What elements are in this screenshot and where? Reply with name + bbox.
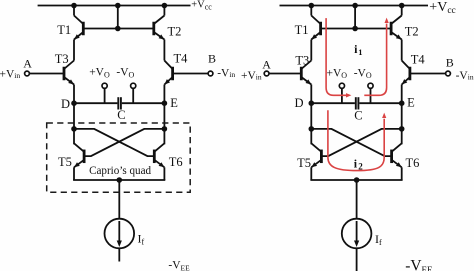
svg-text:T6: T6 <box>406 156 420 170</box>
svg-text:T1: T1 <box>295 23 309 37</box>
svg-text:T1: T1 <box>57 23 71 37</box>
svg-text:B: B <box>208 52 216 66</box>
svg-text:T5: T5 <box>58 155 72 169</box>
svg-text:T4: T4 <box>174 52 189 66</box>
svg-text:T2: T2 <box>168 25 182 39</box>
svg-text:T3: T3 <box>55 52 69 66</box>
svg-text:D: D <box>295 96 304 110</box>
svg-text:T6: T6 <box>169 155 183 169</box>
svg-text:C: C <box>117 108 125 122</box>
svg-text:B: B <box>446 56 454 70</box>
svg-text:T5: T5 <box>297 156 311 170</box>
svg-text:+Vcc: +Vcc <box>191 0 212 12</box>
svg-text:E: E <box>170 96 178 110</box>
svg-text:A: A <box>262 57 271 71</box>
svg-text:+Vin: +Vin <box>0 69 20 81</box>
svg-text:-Vin: -Vin <box>217 68 235 80</box>
svg-text:+Vin: +Vin <box>241 70 262 82</box>
svg-text:1: 1 <box>358 47 362 57</box>
svg-text:C: C <box>354 109 362 123</box>
svg-text:2: 2 <box>358 161 363 171</box>
svg-text:E: E <box>407 96 415 110</box>
svg-text:T2: T2 <box>405 25 419 39</box>
svg-text:A: A <box>23 57 32 71</box>
svg-text:Caprio’s quad: Caprio’s quad <box>89 163 151 177</box>
svg-text:T3: T3 <box>295 54 309 68</box>
svg-text:-Vin: -Vin <box>456 70 474 82</box>
svg-text:D: D <box>61 97 70 111</box>
svg-text:T4: T4 <box>411 53 426 67</box>
